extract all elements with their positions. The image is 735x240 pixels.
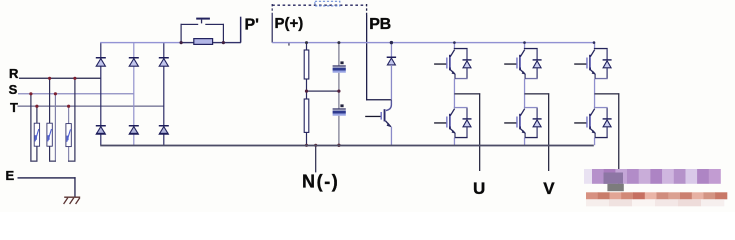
wire cell bottom Q2 [455,137,468,138]
node bottom capacitor branch [337,144,340,147]
diode D9 [533,59,542,60]
capacitor C2 [333,108,346,109]
IGBT Q2 emitter [450,129,455,133]
diode D8 branch [466,108,467,118]
wire phase R [19,78,101,79]
diode D9 branch [537,49,538,59]
wire brake diode branch upper [391,43,392,57]
watermark mosaic dark purple-gray block [604,173,624,184]
node bypass left [180,41,183,44]
wire pair bottom bar b [49,161,56,162]
ground symbol [64,197,81,204]
svg-text:T: T [10,100,18,115]
svg-text:P(+): P(+) [275,15,304,32]
wire bypass left riser [181,24,182,43]
IGBT Q7 emitter [386,121,391,127]
capacitor C2 polarity mark [340,104,343,107]
IGBT Q6 cell node [594,107,608,108]
wire capacitor branch top [338,43,339,65]
wire Q4 emitter drop [525,133,526,138]
wire Q2 emitter drop [454,133,455,138]
svg-text:N(-): N(-) [302,172,339,192]
wire surge branch b1 (from R, through RV2) [49,78,50,162]
resistor R1 (charging) [194,39,213,45]
IGBT Q5 emitter [590,70,595,74]
wire E vertical [74,177,75,196]
wire Q3 emitter drop [525,74,526,79]
IGBT Q2 body bar [449,114,451,130]
IGBT Q4 cell node [524,107,538,108]
wire PB bottom link [366,99,392,100]
IGBT Q5 gate lead [574,63,586,64]
diode D12 [603,118,612,119]
svg-text:R: R [9,66,19,81]
IGBT Q7 (brake) collector [386,100,391,110]
IGBT Q1 collector [450,50,454,57]
IGBT Q1 gate bar [446,58,447,69]
wire bypass top path [181,24,199,25]
wire DC+ rail left [100,42,180,43]
diode D3 [159,57,169,59]
diode D5 [129,125,139,127]
diode D7 [463,59,472,60]
IGBT Q7 gate lead [365,116,380,117]
node rail capacitor branch [337,41,340,44]
diode D6 [159,125,169,127]
svg-text:PB: PB [369,16,390,33]
wire cell bottom Q5 [595,78,608,79]
IGBT Q5 cell node [594,48,608,49]
wire brake emitter to N rail [391,127,392,146]
IGBT Q3 body bar [519,55,521,71]
IGBT Q7 gate bar [381,112,382,120]
IGBT Q1 emitter [450,70,455,74]
IGBT Q7 body bar [384,109,386,121]
watermark mosaic gray block [607,184,623,191]
wire resistor branch middle [306,79,307,99]
node midpoint left [305,90,308,93]
IGBT Q6 emitter [590,129,595,133]
IGBT Q4 emitter [520,129,525,133]
IGBT Q6 gate bar [586,117,587,128]
wire brake diode branch lower [391,65,392,100]
capacitor C1 polarity mark [340,61,343,64]
IGBT Q5 collector [590,50,594,57]
terminal PB riser [366,4,368,15]
wire Q1 emitter drop [454,74,455,79]
IGBT Q3 cell node [524,48,538,49]
wire dashed braking-resistor run [272,4,366,6]
wire cell bottom Q3 [525,78,538,79]
contactor K1 actuator tick [201,20,202,24]
diode D7 branch [466,49,467,59]
wire phase S [18,93,134,94]
diode D8 [463,118,472,119]
diode D13 (brake) [387,57,396,59]
wire bypass right riser [223,24,224,43]
IGBT Q3 collector [520,50,524,57]
wire N(-) tap [315,146,316,173]
wire surge branch a2 (from T, through RV1) [36,106,37,162]
node rail resistor branch [305,41,308,44]
diode D12 branch [607,108,608,118]
wire midpoint link [307,91,339,92]
wire resistor branch top [306,43,307,50]
IGBT Q1 gate lead [434,63,446,64]
IGBT Q2 gate bar [446,117,447,128]
wire pair bottom bar a [30,161,37,162]
diode D10 [533,118,542,119]
diode D2 [129,57,139,59]
svg-text:V: V [543,179,555,198]
IGBT Q3 gate lead [504,63,516,64]
diode D11 [603,59,612,60]
IGBT Q1 cell node [454,48,468,49]
wire rectifier leg 2 [133,43,134,146]
terminal P' riser [240,17,242,43]
resistor R2 (balance upper) [304,50,309,79]
junction dots on phase lines [48,77,51,80]
resistor R3 (balance lower) [304,99,309,132]
watermark mosaic purple bar [584,169,592,184]
wire cell bottom Q4 [525,137,538,138]
diode D4 [96,125,106,127]
watermark mosaic pale bar [586,199,609,206]
wire output U tap [454,93,480,94]
wire rectifier leg 1 [100,43,101,146]
wire E horizontal [18,177,76,178]
IGBT Q4 collector [520,109,524,116]
diode D1 [96,57,106,59]
wire DC+ rail right [272,42,594,43]
wire inverter leg 3 stubs [594,43,595,48]
svg-text:P': P' [245,17,259,34]
node brake diode rail [390,41,393,44]
wire surge branch c2 (from R) [74,78,75,162]
node rail stub near P(+) [288,42,289,45]
IGBT Q4 gate bar [516,117,517,128]
wire pair bottom bar c [68,161,76,162]
IGBT Q6 collector [590,109,594,116]
wire inverter leg 2 stubs [524,43,525,48]
IGBT Q2 cell node [454,107,468,108]
wire rectifier leg 3 [163,43,164,146]
svg-text:E: E [6,168,15,183]
IGBT Q5 body bar [589,55,591,71]
IGBT Q5 gate bar [586,58,587,69]
wire capacitor branch middle [338,73,339,109]
IGBT Q6 body bar [589,114,591,130]
braking resistor (external, dashed box) [315,1,340,6]
contactor K1 moving bar [196,18,210,20]
wire phase T [18,106,164,107]
svg-text:U: U [473,179,485,198]
wire surge branch c1 (from T, through RV3) [68,106,69,162]
wire Q5 emitter drop [595,74,596,79]
IGBT Q3 emitter [520,70,525,74]
node rail inverter leg 2 [523,41,526,44]
IGBT Q2 gate lead [434,122,446,123]
wire output V tap [525,93,550,94]
node midpoint right [337,90,340,93]
varistor RV2 [47,123,52,146]
IGBT Q3 gate bar [516,58,517,69]
diode D10 branch [537,108,538,118]
wire Q6 emitter drop [595,133,596,138]
IGBT Q4 gate lead [504,122,516,123]
IGBT Q1 body bar [449,55,451,71]
diode D11 branch [607,49,608,59]
IGBT Q4 body bar [519,114,521,130]
wire inverter leg 1 stubs [454,43,455,48]
svg-text:S: S [9,82,18,97]
terminal P(+) riser [271,4,273,14]
node rail inverter leg 3 [593,41,596,44]
wire capacitor branch bottom [338,116,339,145]
varistor RV1 [34,123,39,146]
watermark mosaic salmon bar [586,192,598,199]
IGBT Q2 collector [450,109,454,116]
wire surge branch a1 (from S) [30,93,31,161]
node N tap [314,144,317,147]
varistor RV3 [66,124,71,147]
wire surge branch b2 (from S) [55,93,56,161]
wire resistor branch bottom [306,132,307,145]
node bottom resistor branch [305,144,308,147]
wire DC- rail [100,145,594,147]
wire cell bottom Q1 [455,78,468,79]
wire DC+ rail through charging resistor section [181,42,241,43]
capacitor C1 [333,65,346,66]
wire output W tap [595,93,620,94]
node bypass right [222,41,225,44]
wire cell bottom Q6 [595,137,608,138]
node rail inverter leg 1 [453,41,456,44]
IGBT Q6 gate lead [574,122,586,123]
